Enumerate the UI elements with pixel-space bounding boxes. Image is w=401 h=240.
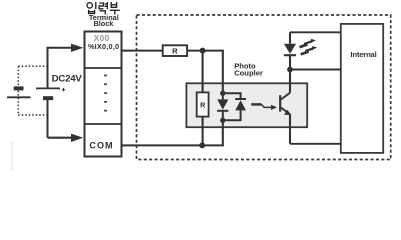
- terminal divider 2: [84, 123, 122, 125]
- light arrow to transistor: [251, 103, 261, 106]
- terminal block: [85, 32, 122, 157]
- terminal dots: [104, 75, 107, 112]
- label 입력부 (drawn glyphs): [87, 2, 120, 15]
- alt battery minus plate: [14, 86, 24, 90]
- junction dot LED bottom: [220, 118, 225, 123]
- resistor R1: [163, 45, 187, 56]
- junction dot bottom rail: [199, 142, 205, 148]
- plus sign: [62, 88, 65, 91]
- wire battery to bottom corner: [47, 100, 49, 138]
- wire corner down to LED pair: [222, 51, 224, 94]
- scan artifact strip: [11, 142, 14, 170]
- node A junction dot: [200, 48, 206, 54]
- svg-text:Coupler: Coupler: [234, 68, 263, 77]
- 입: [87, 3, 92, 8]
- junction dot LED top: [220, 91, 225, 96]
- wire down from corner: [47, 47, 49, 88]
- photocoupler box: [186, 83, 307, 127]
- wire node A down to R2: [202, 51, 204, 93]
- battery DC24V plus plate: [36, 87, 60, 89]
- collector wire up: [289, 70, 291, 93]
- svg-text:R: R: [200, 100, 206, 109]
- emission arrow 1: [300, 39, 316, 47]
- alt battery dotted box: [18, 66, 47, 115]
- emitter wire to internal: [290, 143, 340, 145]
- wire collector to internal: [290, 69, 340, 71]
- svg-text:Block: Block: [93, 19, 114, 28]
- internal box: [341, 24, 383, 153]
- wire R1 to corner: [187, 50, 224, 52]
- LED D3 indicator: [284, 44, 296, 54]
- alt battery plus plate: [7, 96, 31, 98]
- emitter wire down: [289, 114, 291, 144]
- emission arrow 2: [301, 46, 317, 54]
- svg-text:R: R: [172, 46, 178, 55]
- module boundary dashed box: [137, 15, 391, 160]
- wire block to R1: [122, 50, 163, 52]
- terminal divider 1: [84, 67, 122, 69]
- resistor R2: [197, 92, 209, 116]
- LED D2 (up) loop: [223, 93, 241, 120]
- bottom rail COM wire: [122, 144, 223, 146]
- svg-text:%IX0,0,0: %IX0,0,0: [88, 42, 119, 51]
- svg-text:DC24V: DC24V: [52, 73, 83, 84]
- wire X00 input with arrow: [48, 47, 72, 49]
- phototransistor Q1: [279, 95, 281, 111]
- junction dot collector: [287, 67, 293, 73]
- LED D1 (down): [217, 99, 228, 109]
- wire to COM with arrow: [48, 137, 72, 139]
- 력: [99, 3, 103, 9]
- wire LED pair to bottom rail: [222, 120, 224, 146]
- svg-text:Internal: Internal: [350, 50, 376, 59]
- 부: [111, 2, 116, 8]
- svg-text:COM: COM: [89, 141, 113, 151]
- wire top to internal: [290, 31, 340, 33]
- wire R2 to bottom rail: [202, 117, 204, 146]
- battery DC24V minus plate: [43, 96, 53, 100]
